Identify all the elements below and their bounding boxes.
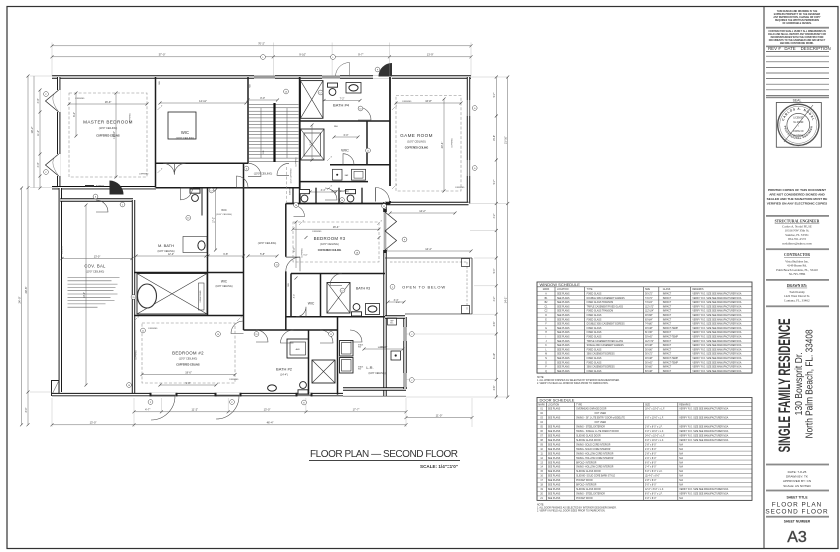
- svg-text:FIXED GLASS: FIXED GLASS: [587, 293, 602, 296]
- svg-text:COFFERED: COFFERED: [312, 231, 322, 233]
- printed copies note: [767, 188, 828, 206]
- svg-text:VERIFY R.O. SIZE SEE MANUFACTU: VERIFY R.O. SIZE SEE MANUFACTURER NOA: [692, 314, 741, 317]
- svg-text:COFFERED: COFFERED: [296, 157, 298, 167]
- svg-text:TRIPLE CASEMENT/FIXED GLASS: TRIPLE CASEMENT/FIXED GLASS: [587, 340, 624, 343]
- door swing top entry: [336, 63, 350, 77]
- entry door swing top: [379, 63, 393, 77]
- svg-text:SWING - STEEL EXTERIOR: SWING - STEEL EXTERIOR: [576, 494, 605, 496]
- shaft X: [301, 81, 324, 119]
- svg-text:SEE PLANS: SEE PLANS: [548, 439, 561, 442]
- door: bedroom3 entry: [286, 257, 300, 271]
- door: bath2: [256, 330, 268, 342]
- svg-text:IMPACT: IMPACT: [663, 318, 672, 321]
- svg-text:SEE PLANS: SEE PLANS: [557, 344, 570, 347]
- svg-text:30"x68": 30"x68": [645, 315, 653, 317]
- door arc south 2: [216, 396, 239, 419]
- door: balcony from master: [96, 200, 108, 212]
- svg-text:5'-7": 5'-7": [493, 92, 496, 97]
- svg-text:IMPACT: IMPACT: [663, 323, 672, 326]
- project name vertical: [775, 318, 816, 452]
- wall: wic3 west: [290, 274, 292, 317]
- svg-text:LOCATION: LOCATION: [557, 288, 569, 291]
- small 4ft leader marks: [158, 107, 161, 110]
- wall: bath3 west: [320, 274, 322, 317]
- svg-text:SEE PLANS: SEE PLANS: [548, 461, 561, 464]
- svg-text:14'-11": 14'-11": [199, 99, 207, 103]
- svg-text:Q: Q: [545, 371, 547, 373]
- svg-text:8'-2": 8'-2": [73, 112, 76, 117]
- svg-text:VERIFY R.O. SIZE SEE MANUFACTU: VERIFY R.O. SIZE SEE MANUFACTURER NOA: [692, 327, 741, 330]
- svg-text:SEE PLANS: SEE PLANS: [557, 331, 570, 334]
- svg-text:FIXED GLASS TRANSOM: FIXED GLASS TRANSOM: [587, 310, 614, 313]
- wall: hall south y330: [244, 329, 338, 331]
- svg-text:13'-0": 13'-0": [90, 421, 97, 425]
- svg-text:REF: REF: [390, 321, 393, 323]
- svg-text:SEE PLANS: SEE PLANS: [557, 310, 570, 313]
- wire: [52, 393, 343, 396]
- svg-text:FIXED GLASS: FIXED GLASS: [587, 361, 602, 364]
- svg-text:5'-4": 5'-4": [493, 268, 496, 273]
- wall: bar south: [301, 181, 369, 183]
- dim: left inner: [39, 90, 41, 188]
- dim: left outermost 24-0: [21, 188, 23, 425]
- svg-text:37'-0": 37'-0": [159, 53, 166, 57]
- svg-text:CONTRACTOR: CONTRACTOR: [784, 253, 810, 257]
- svg-text:SHEET NUMBER: SHEET NUMBER: [784, 520, 811, 524]
- dim: open below 14-4: [386, 250, 471, 252]
- svg-text:3'-0" x 10'-0" x L.F.: 3'-0" x 10'-0" x L.F.: [645, 431, 664, 433]
- svg-text:ARE NOT CONSIDERED SIGNED AND: ARE NOT CONSIDERED SIGNED AND: [769, 193, 825, 197]
- dim: covbal 13-0: [62, 258, 132, 260]
- svg-text:VERIFY R.O. SIZE SEE MANUFACTU: VERIFY R.O. SIZE SEE MANUFACTURER NOA: [679, 488, 728, 491]
- dim: game width: [396, 102, 461, 104]
- svg-text:VERIFY R.O. SIZE SEE MANUFACTU: VERIFY R.O. SIZE SEE MANUFACTURER NOA: [692, 366, 741, 369]
- svg-text:CONTRACTOR SHALL VERIFY ALL DI: CONTRACTOR SHALL VERIFY ALL DIMENSIONS I…: [768, 30, 826, 33]
- svg-text:COFFERED CEILING: COFFERED CEILING: [176, 364, 200, 367]
- svg-text:IMPACT: IMPACT: [663, 344, 672, 347]
- svg-text:SEAL: SEAL: [793, 99, 802, 103]
- svg-text:SIZE: SIZE: [645, 289, 651, 291]
- dim: lr 10-10: [364, 348, 403, 350]
- svg-text:SWING- SOLID CORE INTERIOR: SWING- SOLID CORE INTERIOR: [576, 449, 611, 451]
- svg-text:3060 CASEMENT EGRESS: 3060 CASEMENT EGRESS: [587, 353, 616, 356]
- toilet bath3: [352, 304, 362, 316]
- sink bath2: [268, 385, 277, 391]
- dim: 3-4 lr: [388, 301, 404, 303]
- dim: bed3 16-4: [293, 228, 379, 230]
- svg-text:N/A: N/A: [679, 484, 683, 487]
- svg-text:VERIFY R.O. SIZE SEE MANUFACTU: VERIFY R.O. SIZE SEE MANUFACTURER NOA: [692, 353, 741, 356]
- svg-text:North Palm Beach, FL. 33408: North Palm Beach, FL. 33408: [805, 329, 816, 438]
- toilet bath2: [298, 382, 308, 394]
- svg-text:4'-2": 4'-2": [493, 213, 496, 218]
- svg-text:WINDOW SCHEDULE: WINDOW SCHEDULE: [540, 282, 581, 287]
- svg-text:SEE PLANS: SEE PLANS: [557, 297, 570, 300]
- svg-text:J: J: [411, 380, 412, 382]
- svg-text:SEE PLANS: SEE PLANS: [557, 336, 570, 339]
- wall: bed3 south: [291, 273, 385, 275]
- dim: master height 17-10: [115, 93, 117, 177]
- svg-text:OVERHEAD GARAGE DOOR: OVERHEAD GARAGE DOOR: [576, 408, 607, 411]
- svg-text:70'-2": 70'-2": [258, 42, 265, 46]
- svg-text:NOT USED: NOT USED: [595, 422, 607, 424]
- drawing title: [309, 449, 460, 469]
- svg-text:SLIDING GLASS DOOR: SLIDING GLASS DOOR: [576, 434, 601, 437]
- svg-text:IMPACT: IMPACT: [663, 331, 672, 334]
- svg-text:DRAWN BY:: DRAWN BY:: [787, 284, 807, 288]
- svg-text:46'-4": 46'-4": [267, 421, 274, 425]
- svg-text:APPROVED BY: CN: APPROVED BY: CN: [783, 479, 811, 483]
- svg-text:17'-7": 17'-7": [353, 408, 360, 412]
- svg-text:DRAWN BY: TK: DRAWN BY: TK: [786, 475, 809, 479]
- svg-text:OF HONORABLE DESIGN.: OF HONORABLE DESIGN.: [782, 22, 811, 25]
- svg-text:BATH #4: BATH #4: [333, 103, 350, 108]
- svg-text:SINGLE 2640 CASEMENT EGRESS: SINGLE 2640 CASEMENT EGRESS: [587, 344, 624, 347]
- wall: wc stubs: [292, 188, 294, 204]
- svg-text:J: J: [545, 341, 546, 343]
- svg-text:N/A: N/A: [679, 466, 683, 469]
- svg-text:N/A: N/A: [679, 470, 683, 473]
- stairs arrow: [260, 108, 262, 158]
- svg-text:IMPACT: IMPACT: [663, 293, 672, 296]
- svg-text:VERIFY R.O. SIZE SEE MANUFACTU: VERIFY R.O. SIZE SEE MANUFACTURER NOA: [692, 340, 741, 343]
- svg-text:SEE PLANS: SEE PLANS: [557, 305, 570, 308]
- svg-text:COFFERED CEILING: COFFERED CEILING: [96, 134, 120, 137]
- svg-text:IMPACT: IMPACT: [663, 305, 672, 308]
- svg-text:COV. BAL: COV. BAL: [84, 264, 106, 269]
- svg-text:4'-2": 4'-2": [493, 296, 496, 301]
- svg-text:COFFERED: COFFERED: [402, 101, 412, 103]
- svg-text:SEE PLANS: SEE PLANS: [557, 348, 570, 351]
- svg-text:3'-4": 3'-4": [396, 302, 401, 304]
- wet bar boxes: [333, 169, 343, 180]
- svg-text:IMPACT: IMPACT: [663, 348, 672, 351]
- svg-text:SWING- SOLID CORE INTERIOR: SWING- SOLID CORE INTERIOR: [576, 444, 611, 446]
- svg-text:OPEN TO BELOW: OPEN TO BELOW: [402, 284, 446, 289]
- wall: bed3 north: [286, 203, 390, 205]
- svg-text:L.R.: L.R.: [366, 365, 373, 370]
- svg-text:EXPRESS PROPERTY OF THE DESIGN: EXPRESS PROPERTY OF THE DESIGNER: [774, 14, 821, 16]
- svg-text:4'-0": 4'-0": [37, 162, 40, 167]
- svg-text:ANY REPRODUCTION, CHANGE OR CO: ANY REPRODUCTION, CHANGE OR COPY: [773, 16, 821, 19]
- casement window P1: [46, 90, 59, 112]
- svg-text:6'-0" x 8'-0" x L.F.: 6'-0" x 8'-0" x L.F.: [645, 471, 663, 473]
- wall: hall west x243: [243, 163, 245, 330]
- svg-text:112"x72": 112"x72": [645, 306, 654, 308]
- svg-text:SEE PLANS: SEE PLANS: [548, 416, 561, 419]
- svg-text:COFFERED: COFFERED: [139, 174, 149, 176]
- svg-text:(10'0" CEILING): (10'0" CEILING): [407, 139, 426, 143]
- svg-text:DOUBLE 3060 CASEMENT EGRESS: DOUBLE 3060 CASEMENT EGRESS: [587, 323, 625, 326]
- svg-text:2'-8" x 8'-0": 2'-8" x 8'-0": [645, 453, 657, 455]
- coffer master: [69, 93, 147, 177]
- wall: stair east: [299, 77, 301, 204]
- svg-text:COFFERED: COFFERED: [75, 98, 85, 100]
- svg-text:74"x72": 74"x72": [645, 298, 653, 300]
- svg-text:SEE PLANS: SEE PLANS: [557, 318, 570, 321]
- svg-text:COFFERED: COFFERED: [302, 248, 304, 258]
- svg-text:(10'0" CEILING): (10'0" CEILING): [320, 242, 339, 246]
- svg-text:BATH #3: BATH #3: [356, 287, 370, 291]
- dim: bed2 19-0: [142, 374, 235, 376]
- svg-text:13'-0": 13'-0": [94, 254, 101, 258]
- svg-text:VERIFY R.O. SIZE SEE MANUFACTU: VERIFY R.O. SIZE SEE MANUFACTURER NOA: [679, 493, 728, 496]
- svg-text:30"x48": 30"x48": [645, 328, 653, 330]
- svg-text:11'-2": 11'-2": [191, 408, 198, 412]
- dim: wic width: [160, 102, 246, 104]
- paragraph 2: [768, 30, 826, 45]
- hall coffer dash: [286, 167, 288, 202]
- svg-text:INCONSISTENCIES WITH THE CONST: INCONSISTENCIES WITH THE CONSTRUCTION: [771, 37, 824, 39]
- svg-text:13'-0": 13'-0": [264, 408, 271, 412]
- coffer bed2: [142, 323, 235, 383]
- door: corridor: [248, 163, 261, 176]
- svg-text:STATE OF: STATE OF: [793, 130, 804, 133]
- title block divider: [763, 7, 765, 549]
- svg-text:TYPE: TYPE: [587, 289, 593, 291]
- svg-text:SWING- HOLLOW CORE INTERIOR: SWING- HOLLOW CORE INTERIOR: [576, 453, 614, 455]
- svg-text:EGRESS: EGRESS: [96, 185, 105, 187]
- coffer game: [396, 96, 461, 192]
- svg-text:VERIFY R.O. SIZE SEE MANUFACTU: VERIFY R.O. SIZE SEE MANUFACTURER NOA: [679, 408, 728, 411]
- svg-text:EGRESS: EGRESS: [290, 187, 292, 195]
- svg-text:(10'0" CEILING): (10'0" CEILING): [258, 241, 277, 245]
- svg-text:30"x48": 30"x48": [645, 345, 653, 347]
- dim: master width: [69, 103, 147, 105]
- sink mbath: [198, 241, 205, 250]
- svg-text:SWING - STEEL EXTERIOR: SWING - STEEL EXTERIOR: [576, 426, 605, 428]
- svg-text:SEE PLANS: SEE PLANS: [548, 493, 561, 496]
- stairs treads: [249, 105, 299, 162]
- svg-text:9'-0": 9'-0": [186, 382, 191, 385]
- svg-text:SLIDING GLASS DOOR: SLIDING GLASS DOOR: [576, 439, 601, 442]
- dim: wic6: [334, 136, 358, 138]
- svg-text:4'-4": 4'-4": [294, 294, 296, 299]
- svg-text:A3: A3: [787, 529, 807, 546]
- dim: wic17-2: [215, 190, 217, 250]
- svg-text:9'-0" x 10'-0" x L.F.: 9'-0" x 10'-0" x L.F.: [645, 440, 664, 442]
- dim: hall 6-8: [208, 255, 244, 257]
- svg-text:VERIFY R.O. SIZE SEE MANUFACTU: VERIFY R.O. SIZE SEE MANUFACTURER NOA: [692, 357, 741, 360]
- svg-text:1. ALL DOOR FINISHES AS SELECT: 1. ALL DOOR FINISHES AS SELECTED BY INTE…: [537, 507, 617, 510]
- mbath shower/tub X: [137, 274, 207, 315]
- svg-text:4'-7": 4'-7": [145, 408, 150, 412]
- svg-text:SEE PLANS: SEE PLANS: [548, 497, 561, 500]
- door jambs south: [150, 393, 152, 397]
- svg-text:N/A: N/A: [679, 457, 683, 460]
- svg-text:(10'0" CEILING): (10'0" CEILING): [215, 285, 232, 288]
- svg-text:REMARKS: REMARKS: [692, 288, 704, 291]
- svg-text:36"x42": 36"x42": [645, 362, 653, 364]
- wire: [467, 77, 470, 204]
- svg-text:14'-4": 14'-4": [425, 247, 432, 251]
- svg-text:SLIDING GLASS DOOR: SLIDING GLASS DOOR: [576, 470, 601, 473]
- svg-text:STRUCTURAL ENGINEER: STRUCTURAL ENGINEER: [775, 220, 820, 224]
- dim: bed2 9-0: [160, 384, 216, 386]
- svg-text:COFFERED CEILING: COFFERED CEILING: [318, 249, 342, 252]
- svg-text:SWING- HOLLOW CORE INTERIOR: SWING- HOLLOW CORE INTERIOR: [576, 467, 614, 469]
- wire: [383, 202, 386, 396]
- svg-text:REV # DATE DESCRIPTION: REV # DATE DESCRIPTION: [768, 46, 831, 51]
- svg-text:VERIFY R.O. SIZE SEE MANUFACTU: VERIFY R.O. SIZE SEE MANUFACTURER NOA: [692, 297, 741, 300]
- svg-text:SEE PLANS: SEE PLANS: [557, 314, 570, 317]
- dim: bath4 width: [324, 100, 360, 102]
- svg-text:nodalincs@yahoo.com: nodalincs@yahoo.com: [782, 242, 812, 246]
- vanity counter mbath: [183, 237, 207, 253]
- svg-text:2. VERIFY IN FIELD ALL DOOR SI: 2. VERIFY IN FIELD ALL DOOR SIZES PRIOR …: [537, 510, 606, 513]
- svg-text:PRINTED COPIES OF THIS DOCUMEN: PRINTED COPIES OF THIS DOCUMENT: [768, 188, 826, 192]
- door arc game room: [376, 188, 390, 202]
- svg-text:WIC: WIC: [181, 130, 189, 135]
- svg-text:17'-10": 17'-10": [113, 131, 116, 139]
- door arc south 1: [151, 396, 175, 420]
- wall: mbath xbox top: [134, 272, 244, 274]
- svg-text:2'-6" x 8'-0": 2'-6" x 8'-0": [645, 449, 657, 451]
- svg-text:6'-8": 6'-8": [223, 253, 228, 256]
- svg-text:COFFERED: COFFERED: [455, 187, 465, 189]
- wall: bath4 south: [301, 120, 391, 122]
- svg-text:IMPACT: IMPACT: [663, 353, 672, 356]
- svg-text:GLASS: GLASS: [663, 288, 671, 291]
- wire: [52, 186, 156, 189]
- svg-text:SEE PLANS: SEE PLANS: [557, 327, 570, 330]
- svg-text:BIFOLD- INTERIOR: BIFOLD- INTERIOR: [576, 485, 597, 487]
- svg-text:SIZE: SIZE: [645, 404, 651, 406]
- svg-text:COFFERED: COFFERED: [229, 379, 239, 381]
- svg-text:EGRESS: EGRESS: [61, 245, 63, 254]
- svg-text:VERIFY R.O. SIZE SEE MANUFACTU: VERIFY R.O. SIZE SEE MANUFACTURER NOA: [679, 416, 728, 419]
- svg-text:NOTE:: NOTE:: [537, 377, 544, 379]
- svg-text:MARK: MARK: [538, 403, 545, 406]
- door: bath3: [330, 274, 342, 286]
- svg-text:BEDROOM #3: BEDROOM #3: [314, 236, 346, 241]
- svg-text:SEE PLANS: SEE PLANS: [548, 475, 561, 478]
- svg-text:DOCUMENTS TO THE ENGINEER AND: DOCUMENTS TO THE ENGINEER AND ARCHITECT: [769, 39, 826, 42]
- svg-text:W.C.: W.C.: [390, 322, 394, 324]
- svg-text:4'-0": 4'-0": [37, 98, 40, 103]
- bathtub: [138, 284, 157, 308]
- svg-text:VERIFY R.O. SIZE SEE MANUFACTU: VERIFY R.O. SIZE SEE MANUFACTURER NOA: [692, 370, 741, 373]
- svg-text:SEE PLANS: SEE PLANS: [548, 466, 561, 469]
- window L1: [254, 75, 275, 77]
- svg-text:2'-8" x 8'-0": 2'-8" x 8'-0": [645, 480, 657, 482]
- svg-text:18'-0" x 10'-0" x L.F.: 18'-0" x 10'-0" x L.F.: [645, 409, 665, 411]
- svg-text:IMPACT: IMPACT: [663, 297, 672, 300]
- svg-text:1. ALL WINDOW FINISHES AS SELE: 1. ALL WINDOW FINISHES AS SELECTED BY IN…: [537, 379, 620, 382]
- svg-text:3'-0" x 8'-0": 3'-0" x 8'-0": [645, 498, 657, 500]
- svg-text:7'-4": 7'-4": [293, 247, 296, 252]
- svg-text:8'-0" x 8'-0" x L.F.: 8'-0" x 8'-0" x L.F.: [645, 494, 663, 496]
- svg-text:IMPACT-TEMP: IMPACT-TEMP: [663, 357, 679, 360]
- svg-text:2'-8" x 8'-0" x L.F.: 2'-8" x 8'-0" x L.F.: [645, 426, 663, 428]
- svg-text:SEE PLANS: SEE PLANS: [548, 452, 561, 455]
- svg-text:FIXED GLASS: FIXED GLASS: [587, 331, 602, 334]
- svg-text:SEE PLANS: SEE PLANS: [548, 434, 561, 437]
- svg-text:THIS DESIGN AND DRAWING IS THE: THIS DESIGN AND DRAWING IS THE: [777, 10, 818, 13]
- svg-text:COFFERED CEILING: COFFERED CEILING: [405, 147, 429, 150]
- svg-text:COFFERED: COFFERED: [130, 113, 132, 123]
- svg-text:POCKET DOOR: POCKET DOOR: [576, 498, 593, 500]
- wire: [132, 200, 135, 393]
- svg-text:SEE PLANS: SEE PLANS: [548, 448, 561, 451]
- stack washer dryer: [340, 341, 354, 357]
- window G1: [467, 100, 469, 116]
- svg-text:2'-8" x 8'-0": 2'-8" x 8'-0": [645, 444, 657, 446]
- svg-text:SLIDING GLASS DOOR: SLIDING GLASS DOOR: [576, 488, 601, 491]
- svg-text:SWING - 36" 1-LITE ENTRY DOOR: SWING - 36" 1-LITE ENTRY DOOR w/SIDELITE: [576, 417, 625, 419]
- svg-text:IMPACT-TEMP: IMPACT-TEMP: [663, 361, 679, 364]
- wall: master east: [155, 77, 157, 188]
- svg-text:FIELD AND SHALL REPORT ANY DIS: FIELD AND SHALL REPORT ANY DISCREPANCY O…: [768, 33, 826, 36]
- svg-text:SINGLE FAMILY RESIDENCE: SINGLE FAMILY RESIDENCE: [775, 318, 794, 452]
- svg-text:N/A: N/A: [679, 452, 683, 455]
- svg-text:VERIFY R.O. SIZE SEE MANUFACTU: VERIFY R.O. SIZE SEE MANUFACTURER NOA: [692, 361, 741, 364]
- svg-text:TYPE: TYPE: [576, 404, 582, 406]
- svg-text:IMPACT: IMPACT: [663, 301, 672, 304]
- svg-text:3'-8": 3'-8": [493, 321, 496, 326]
- svg-text:24'-0" x 10'-0" x L.F.: 24'-0" x 10'-0" x L.F.: [645, 435, 665, 437]
- svg-text:2'-6" x 8'-0": 2'-6" x 8'-0": [645, 458, 657, 460]
- svg-text:VERIFY R.O. SIZE SEE MANUFACTU: VERIFY R.O. SIZE SEE MANUFACTURER NOA: [692, 331, 741, 334]
- svg-text:61"x36": 61"x36": [645, 332, 653, 334]
- open to below outline: [385, 257, 472, 259]
- toilet hall bath A: [300, 190, 310, 202]
- svg-text:N/A: N/A: [679, 475, 683, 478]
- wall: game room west: [389, 77, 391, 186]
- master door dark fan: [110, 181, 124, 195]
- dim: bottom right 11-0: [406, 417, 472, 419]
- wall: stair west: [247, 77, 249, 163]
- svg-text:*: *: [798, 127, 799, 129]
- svg-text:N/A: N/A: [679, 448, 683, 451]
- door: bed2 entry: [231, 321, 244, 334]
- bath2 shower X: [312, 360, 335, 383]
- svg-text:2. VERIFY IN FIELD ALL WINDOW: 2. VERIFY IN FIELD ALL WINDOW SIZES PRIO…: [537, 382, 609, 385]
- wire: [343, 387, 406, 390]
- door: lr: [350, 330, 362, 342]
- svg-text:O: O: [545, 362, 547, 364]
- svg-text:COFFERED: COFFERED: [452, 138, 454, 148]
- svg-text:19'-0": 19'-0": [185, 370, 192, 374]
- dim: game height: [443, 99, 445, 191]
- svg-text:BEFORE CONTINUING WORK.: BEFORE CONTINUING WORK.: [780, 43, 814, 45]
- bath3 shower X: [327, 283, 350, 314]
- dim: bottom row1: [134, 411, 406, 413]
- svg-text:56-795-7886: 56-795-7886: [789, 272, 806, 276]
- ref wc box: [388, 318, 397, 325]
- toilet hall bath B: [346, 190, 356, 202]
- svg-text:2'-4" x 8'-0": 2'-4" x 8'-0": [645, 467, 657, 469]
- french doors F: [385, 212, 397, 231]
- svg-text:5'-8": 5'-8": [260, 253, 265, 256]
- svg-text:SEE PLANS: SEE PLANS: [557, 361, 570, 364]
- svg-text:SEE PLANS: SEE PLANS: [548, 470, 561, 473]
- svg-text:AHU: AHU: [296, 348, 301, 351]
- svg-text:SEE PLANS: SEE PLANS: [548, 430, 561, 433]
- svg-text:G: G: [545, 328, 547, 330]
- svg-text:SEE PLANS: SEE PLANS: [557, 293, 570, 296]
- dim: top row2: [52, 56, 471, 58]
- svg-text:SEE PLANS: SEE PLANS: [548, 479, 561, 482]
- svg-text:SEE PLANS: SEE PLANS: [557, 323, 570, 326]
- dim: 6-10 mid: [311, 125, 313, 160]
- svg-text:REMARKS: REMARKS: [679, 403, 691, 406]
- svg-text:REQUIRES THE WRITTEN PERMISSIO: REQUIRES THE WRITTEN PERMISSION: [775, 20, 819, 22]
- svg-text:DATE: 7-8-25: DATE: 7-8-25: [788, 470, 807, 474]
- svg-text:6'-0" x 10'-0" x L.F.: 6'-0" x 10'-0" x L.F.: [645, 417, 664, 419]
- wall: master wic south: [156, 162, 249, 164]
- door: bath4: [358, 107, 371, 120]
